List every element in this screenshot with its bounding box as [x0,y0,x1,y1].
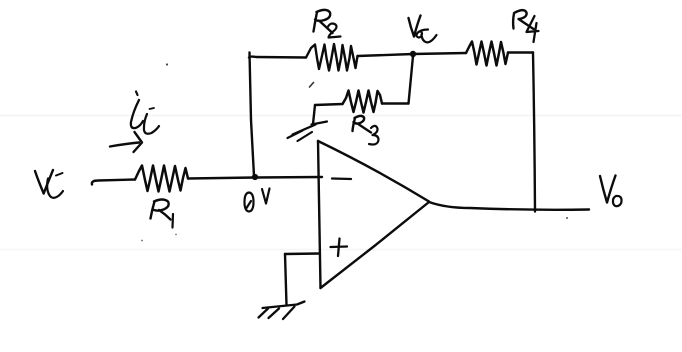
wire top left horizontal to R2 [249,55,306,58]
wire input from Vi to R1 [92,180,135,185]
stray ink speck [166,63,168,65]
label ii (input current) [131,92,159,134]
stray ink tick above ground [310,83,314,88]
wire op-amp output to Vo [429,202,589,210]
wire R4 right segment [508,51,533,53]
op-amp U1 bottom hypotenuse [321,202,430,288]
op-amp U1 top hypotenuse [318,141,429,202]
wire stub down to ground (R3) [313,105,315,124]
op-amp non-inverting input plus sign [331,239,348,257]
wire R3 right segment [382,102,409,104]
wire R2 to node Vx [358,54,414,56]
wire non-inverting input to ground [285,252,320,255]
wire Vx down to R3 [409,56,414,104]
wire R3 left segment [315,104,343,105]
stray ink speck [141,240,143,242]
resistor R4 [466,42,508,66]
op-amp inverting input minus sign [332,177,351,180]
ground (R3 / upper) [288,122,328,142]
stray ink speck [175,234,177,236]
label R4 [513,10,538,42]
node Vx junction dot [410,51,416,57]
ground (plus input / lower) [259,302,305,320]
label R2 [314,10,341,38]
label 0V [245,189,270,212]
resistor R2 [306,44,358,71]
label R3 [353,116,379,145]
paper ruled line faint bottom [0,249,682,251]
node 0V (virtual earth) junction dot [252,174,258,180]
label Vo [600,176,622,207]
arrow for ii current direction [110,132,142,152]
resistor R3 [343,91,383,113]
wire Vx to R4 [413,53,466,54]
op-amp U1 triangle left edge [318,141,321,288]
wire R1 to op-amp inverting input, through 0V node [188,177,322,179]
paper ruled line faint top [0,115,682,117]
label R1 [151,200,174,228]
label Vi (input voltage) [35,170,63,198]
resistor R1 [135,166,188,192]
wire feedback right vertical down to output [533,53,535,212]
label Vx [409,16,437,43]
wire from 0V node up to feedback network [250,53,255,177]
stray ink speck [566,217,568,219]
wire stub down to ground (plus input) [285,254,287,305]
